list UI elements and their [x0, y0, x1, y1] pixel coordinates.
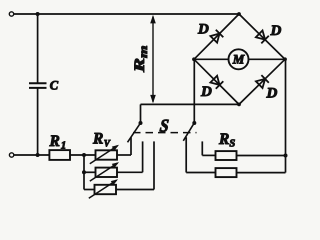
svg-text:M: M: [232, 52, 245, 67]
svg-text:D: D: [270, 23, 282, 39]
wire left vertex to motor: [194, 58, 229, 60]
diode D top-right: [256, 31, 265, 40]
diode D top-left: [210, 34, 219, 43]
wire middle rheostat to stud 2: [117, 171, 143, 173]
diode D bottom-left: [210, 76, 219, 85]
node bridge top vertex: [237, 12, 241, 16]
node bus top junction: [82, 153, 86, 157]
resistor Rs: [216, 151, 237, 160]
svg-text:D: D: [200, 84, 212, 100]
wire right vertex drop: [285, 59, 287, 172]
wire bus vertical: [83, 155, 85, 190]
wire motor to right vertex: [249, 58, 286, 60]
wire bus to middle rheostat: [84, 171, 96, 173]
switch blade left pole: [128, 124, 140, 142]
capacitor C plates: [29, 82, 47, 84]
wire bottom rheostat to stud 3: [116, 189, 154, 191]
node bridge bottom vertex: [237, 103, 241, 107]
resistor R1: [49, 150, 70, 160]
wire right blade to lower resistor: [185, 137, 187, 172]
node bridge right vertex: [283, 57, 287, 61]
wire lower resistor to right vertical: [237, 172, 286, 174]
wire bottom-left horizontal: [14, 154, 50, 156]
terminal top-left: [9, 12, 13, 16]
dimension arrow Rm: [152, 17, 154, 102]
wire bus to bottom rheostat: [84, 189, 95, 191]
node switch right contact: [192, 121, 196, 125]
rheostat (middle): [96, 168, 118, 177]
terminal bottom-left: [9, 153, 13, 157]
svg-text:D: D: [266, 85, 278, 101]
wire bridge left vertex to right pole: [193, 59, 195, 123]
node Rs junction: [284, 154, 288, 158]
wire capacitor upper lead: [37, 14, 39, 83]
rheostat Rv (top): [96, 150, 118, 159]
wire R1 to bus: [70, 154, 96, 156]
switch blade right pole: [183, 124, 193, 141]
node junction top (capacitor tap): [36, 12, 40, 16]
node bus middle junction: [82, 170, 86, 174]
node bridge left vertex: [192, 57, 196, 61]
wire top horizontal: [14, 13, 239, 15]
motor M: [229, 49, 249, 69]
resistor lower (parallel to Rs): [216, 168, 237, 177]
switch linkage dashed: [133, 132, 197, 134]
node switch left contact: [139, 121, 143, 125]
wire left pole drop: [140, 104, 142, 123]
wire Rs to junction: [237, 155, 286, 157]
wire mid horizontal (switch feed to bridge bottom): [141, 103, 240, 105]
wire right stud to resistor Rs: [201, 141, 203, 155]
wire top rheostat to stud 1: [117, 154, 131, 156]
svg-text:D: D: [197, 22, 209, 38]
rheostat (bottom): [95, 185, 117, 194]
wire capacitor lower lead: [37, 88, 39, 155]
diode D bottom-right: [256, 79, 265, 88]
svg-text:C: C: [50, 78, 59, 92]
node junction bottom (capacitor tap): [36, 153, 40, 157]
svg-text:S: S: [159, 116, 170, 136]
bridge diamond wires: [194, 14, 285, 104]
